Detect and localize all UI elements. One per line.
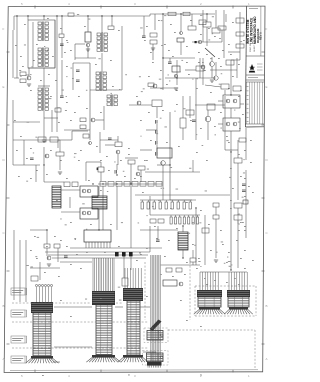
label: [60, 218, 62, 221]
cable W4 twist mark: [150, 320, 162, 332]
label: [26, 157, 28, 160]
label: [22, 65, 24, 68]
label: [220, 229, 222, 232]
junction: [182, 257, 183, 258]
capacitor C3: [76, 79, 80, 81]
wire: [13, 121, 40, 123]
label: [60, 159, 62, 162]
wire: [44, 117, 58, 119]
label: [140, 135, 141, 138]
label: [152, 61, 154, 64]
wire: [54, 20, 56, 68]
junction: [130, 183, 131, 184]
label: [12, 289, 23, 292]
label: [229, 265, 231, 268]
label: [183, 107, 186, 110]
resistor R2: [20, 79, 26, 83]
label: [240, 221, 242, 224]
wire: [19, 240, 21, 302]
label: [46, 173, 48, 176]
label: [224, 262, 226, 265]
label: [228, 87, 230, 90]
label: [136, 95, 138, 98]
label: [248, 185, 250, 188]
junction: [87, 15, 88, 16]
label: [30, 89, 32, 92]
junction: [116, 174, 117, 175]
capacitor C15: [192, 119, 196, 121]
wire: [59, 156, 61, 170]
label: [74, 152, 77, 155]
connector J5 header block: [227, 290, 250, 297]
capacitor C12: [142, 35, 146, 37]
label: [244, 177, 246, 180]
label: [200, 14, 202, 17]
wire: [149, 226, 151, 252]
junction: [102, 183, 103, 184]
label: [74, 111, 76, 114]
wire: [140, 149, 152, 151]
resistor R34: [132, 182, 138, 187]
wire: [215, 219, 217, 240]
label: [168, 74, 169, 77]
company logo: [249, 64, 255, 73]
wire: [191, 14, 193, 26]
resistor R17: [226, 60, 234, 65]
bracket: [26, 356, 28, 363]
label: [238, 63, 240, 66]
label: [108, 169, 110, 172]
label: [124, 175, 126, 178]
resistor R27: [83, 134, 89, 138]
transistor Q13: [214, 76, 218, 80]
resistor R50: [188, 26, 196, 30]
transistor Q18: [45, 154, 49, 158]
label: [20, 55, 22, 58]
wire: [12, 30, 14, 78]
wire: [140, 199, 192, 201]
wire: [51, 110, 53, 132]
wire: [149, 196, 151, 215]
label: [70, 67, 72, 70]
label: [47, 49, 49, 52]
wire (dashed boundary): [194, 286, 196, 316]
roll pin: [161, 334, 164, 337]
wire: [87, 16, 89, 32]
wire: [14, 77, 19, 79]
label: [119, 88, 121, 91]
label: [164, 14, 166, 17]
wire (dashed boundary): [116, 302, 122, 304]
resistor R44: [202, 228, 209, 233]
label: [242, 196, 244, 199]
label: [196, 133, 197, 136]
label: [244, 267, 246, 270]
svg-text:SHEET 1 OF 1: SHEET 1 OF 1: [254, 37, 256, 52]
label: [200, 127, 202, 130]
label: [27, 121, 30, 124]
wire: [165, 77, 215, 79]
transistor Q4: [180, 32, 183, 35]
label: [104, 251, 106, 254]
junction: [182, 225, 183, 226]
label: [139, 75, 141, 78]
label: [58, 275, 60, 278]
resistor R12: [218, 26, 226, 30]
resistor R20: [212, 28, 220, 33]
wire: [13, 164, 40, 166]
junction: [230, 269, 231, 270]
wire: [195, 100, 197, 140]
transformer T3 secondary: [96, 72, 99, 75]
wire: [60, 261, 92, 263]
resistor R6: [80, 125, 86, 129]
label: [26, 180, 28, 183]
label: [250, 139, 252, 142]
wire: [240, 103, 244, 105]
label: [221, 241, 223, 244]
wire (dashed boundary): [195, 285, 256, 287]
label: [206, 283, 208, 286]
wire: [130, 256, 132, 270]
dashed bracket W4a: [144, 328, 168, 343]
wire: [130, 186, 132, 248]
label: [65, 109, 67, 112]
label: [160, 87, 162, 90]
capacitor C1: [60, 43, 64, 45]
label: [186, 45, 188, 48]
wire: [101, 16, 103, 33]
net label box: [11, 356, 25, 363]
net label box: [11, 310, 25, 317]
wire: [143, 351, 156, 353]
label: [20, 135, 22, 138]
label: [86, 228, 87, 231]
wire: [58, 139, 72, 141]
label: [186, 319, 188, 322]
wire: [236, 58, 238, 78]
wire: [156, 107, 158, 118]
label: [80, 149, 82, 152]
label: [164, 255, 166, 258]
label: [148, 111, 150, 114]
transistor Q12: [201, 65, 205, 69]
label: [220, 127, 222, 130]
label: [170, 23, 172, 26]
label: [54, 235, 56, 238]
label: [198, 51, 200, 54]
wire: [157, 164, 170, 166]
resistor R46: [213, 215, 219, 219]
label: [222, 243, 224, 246]
junction: [43, 164, 44, 165]
wire: [100, 172, 102, 181]
label: [15, 44, 17, 47]
label: [221, 72, 223, 75]
wire: [102, 186, 104, 230]
label: [208, 27, 210, 30]
label: [110, 59, 112, 62]
label: [36, 257, 38, 260]
bracket: [26, 336, 28, 343]
label: [86, 107, 88, 110]
label: [232, 21, 234, 24]
wire: [125, 157, 138, 159]
label: [210, 249, 212, 252]
label: [66, 95, 67, 98]
junction: [176, 77, 177, 78]
label: [234, 109, 235, 112]
wire: [156, 134, 158, 141]
label: [238, 121, 240, 124]
wire: [130, 15, 150, 17]
label: [146, 25, 148, 28]
transformer T4: [107, 95, 110, 98]
wire stubs RN0: [141, 200, 143, 202]
label: [212, 15, 214, 18]
wire: [215, 207, 217, 215]
resistor R1: [20, 72, 26, 76]
ground: [86, 48, 90, 50]
junction: [180, 13, 181, 14]
label: [240, 89, 242, 92]
resistor R55: [186, 110, 194, 115]
label: [56, 199, 58, 202]
wire: [225, 14, 227, 22]
cable bundle W4b body: [147, 353, 164, 362]
label: [107, 190, 108, 193]
transformer core T5: [52, 186, 61, 208]
label: [75, 238, 76, 241]
IC U7 pins: [85, 242, 87, 248]
wire: [111, 16, 113, 26]
label: [24, 44, 26, 47]
label: [168, 49, 170, 52]
label: [160, 69, 162, 72]
resistor R40: [150, 219, 156, 223]
wire (dashed boundary): [255, 286, 257, 316]
resistor R38: [115, 142, 122, 147]
wire (dashed boundary): [12, 321, 148, 323]
label: [158, 19, 160, 22]
label: [142, 191, 144, 194]
capacitor C7: [154, 152, 156, 156]
wire: [215, 10, 217, 28]
label: [55, 79, 57, 82]
label: [111, 92, 113, 95]
wire: [116, 186, 118, 230]
label: [161, 187, 162, 190]
label: [12, 313, 21, 316]
diode D9: [243, 200, 248, 204]
label: [244, 229, 246, 232]
wire: [170, 199, 196, 201]
label: [180, 299, 182, 302]
wire: [30, 229, 47, 231]
label: [158, 199, 160, 202]
junction: [43, 15, 44, 16]
label: [18, 175, 20, 178]
wire (dashed boundary): [254, 330, 256, 370]
switch S1: [205, 48, 215, 57]
resistor R54: [239, 138, 246, 142]
label: [176, 89, 178, 92]
wire: [154, 14, 156, 30]
wire: [182, 226, 184, 232]
label: [244, 225, 246, 228]
label: [192, 243, 194, 246]
label: [47, 17, 49, 20]
wire: [45, 251, 150, 253]
resistor R33: [124, 182, 130, 187]
wire (dashed boundary): [12, 302, 90, 304]
wire: [13, 139, 60, 141]
label: [60, 27, 62, 30]
ground: [214, 259, 218, 261]
junction: [162, 57, 163, 58]
label: [238, 283, 240, 286]
wire: [195, 78, 197, 100]
transistor Q16: [205, 116, 211, 122]
resistor R39: [122, 278, 128, 286]
regulator U3: [157, 148, 172, 158]
label: [234, 277, 236, 280]
resistor R24: [207, 104, 215, 110]
label: [186, 201, 188, 204]
resistor R3: [59, 34, 64, 37]
connector J1 terminals: [35, 284, 37, 286]
label: [159, 78, 162, 81]
connector J2 header block: [92, 291, 115, 305]
transformer core T6: [92, 196, 107, 209]
label: [250, 161, 252, 164]
label: [33, 59, 35, 62]
resistor R18: [221, 84, 229, 89]
wire: [64, 129, 90, 131]
label: [226, 281, 228, 284]
wire: [69, 197, 71, 208]
label: [244, 149, 246, 152]
bracket: [237, 214, 239, 224]
label: [46, 245, 48, 248]
relay K1: [85, 32, 91, 42]
resistor R7: [168, 12, 176, 15]
wire: [43, 16, 45, 20]
label: [232, 187, 234, 190]
label: [119, 299, 122, 302]
label: [64, 51, 66, 54]
label: [74, 237, 76, 240]
wire: [54, 306, 92, 308]
wire: [35, 165, 37, 182]
resistor R19: [233, 86, 241, 91]
junction: [123, 255, 124, 256]
label: [202, 61, 204, 64]
transistor Q24: [116, 150, 120, 154]
label: [214, 125, 216, 128]
label: [215, 133, 217, 136]
wire: [103, 106, 105, 130]
label: [95, 63, 97, 66]
label: [150, 139, 152, 142]
capacitor C10: [30, 157, 34, 159]
transformer core T7: [178, 232, 188, 250]
label: [172, 55, 174, 58]
label: [12, 311, 23, 314]
wire: [90, 89, 122, 91]
label: [166, 83, 168, 86]
label: [228, 43, 230, 46]
ground: [47, 263, 51, 265]
wire: [135, 194, 230, 196]
transistor Q25: [179, 282, 183, 286]
label: [240, 257, 242, 260]
wire: [211, 57, 213, 61]
resistor R14: [236, 18, 244, 23]
cable bundle J5b body: [228, 297, 249, 307]
label: [236, 239, 238, 242]
wire: [140, 170, 142, 182]
wire: [129, 104, 152, 106]
resistor R49: [56, 152, 64, 156]
label: [78, 95, 80, 98]
label: [222, 49, 224, 52]
label: [88, 18, 91, 21]
label: [35, 255, 37, 258]
ground: [58, 171, 62, 173]
wire: [192, 41, 222, 43]
label: [214, 35, 216, 38]
wire: [99, 132, 101, 153]
ground: [151, 47, 155, 49]
connector J4 header block: [197, 290, 222, 297]
wire (dashed boundary): [12, 347, 148, 349]
wire: [100, 162, 102, 167]
capacitor C11: [108, 137, 112, 139]
wire: [195, 104, 225, 106]
label: [206, 159, 208, 162]
resistor R48: [55, 108, 61, 112]
diode D10 dot: [97, 168, 99, 171]
label: [176, 103, 178, 106]
wire: [162, 165, 164, 200]
svg-text:E: E: [3, 85, 5, 89]
label: [179, 70, 181, 73]
label: [238, 153, 240, 156]
resistor R41: [158, 219, 164, 223]
label: [30, 266, 33, 269]
wire: [205, 85, 221, 87]
wire: [150, 13, 215, 15]
label: [228, 251, 230, 254]
label: [199, 221, 201, 224]
junction pad: [195, 41, 197, 43]
wire: [204, 215, 206, 240]
wire: [237, 140, 239, 158]
label: [186, 61, 188, 64]
label: [44, 45, 45, 48]
label: [40, 79, 42, 82]
opto U2: [223, 118, 240, 131]
wire: [13, 16, 15, 30]
junction: [195, 207, 196, 208]
label: [58, 106, 60, 109]
wire: [218, 123, 223, 125]
connector J3 header block: [123, 288, 143, 301]
ground: [174, 87, 178, 89]
wire: [237, 208, 239, 215]
transistor Q23: [87, 211, 91, 215]
